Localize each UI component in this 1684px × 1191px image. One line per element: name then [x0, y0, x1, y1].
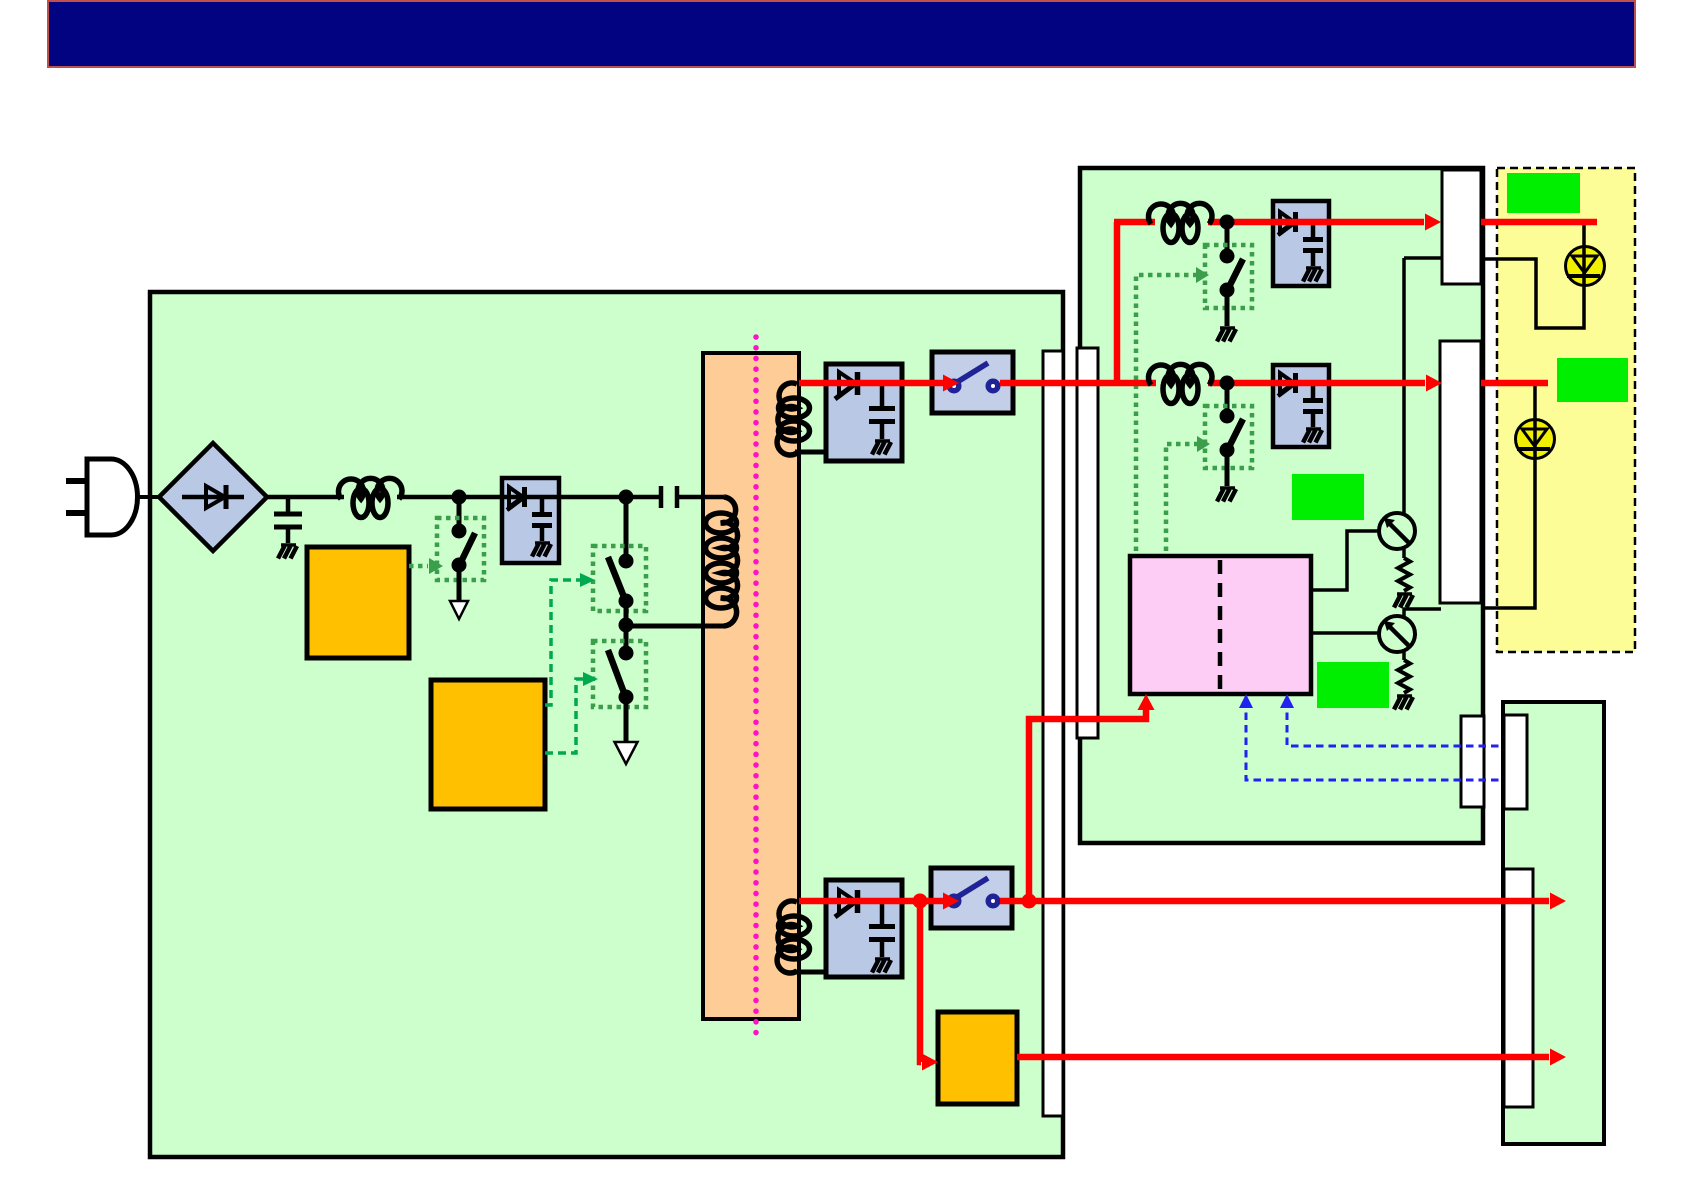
wire SS1 to ground — [1225, 290, 1230, 326]
control line U2 to S1 (dashed) — [545, 580, 584, 705]
control line U2 to S2 (dashed) — [545, 679, 587, 753]
resistor R2 (emitter Q2) — [1398, 660, 1410, 693]
connector bar secondary bottom right — [1461, 716, 1484, 807]
transformer T1 secondary winding top — [777, 383, 809, 455]
open arrow return S2 — [615, 742, 638, 764]
red riser to U4 — [1029, 710, 1146, 901]
open arrow return PFC — [450, 601, 468, 619]
red top branch to panel — [1481, 219, 1597, 226]
feedback line U4 pin2 (blue dashed) — [1287, 700, 1503, 746]
red drop to U3 — [920, 901, 921, 1062]
wire node A to PFC switch — [457, 497, 462, 531]
S1 contacts and lever — [608, 554, 634, 609]
capacitor C1 to ground — [274, 497, 302, 543]
feedback line U4 pin1 (blue dashed) — [1246, 700, 1503, 780]
wire to PFC return — [457, 565, 462, 601]
node E junction — [1220, 376, 1235, 391]
wire plug to bridge — [135, 495, 160, 499]
wire Q1 collector to LED1 return (through connector) — [1404, 256, 1442, 260]
red riser on secondary board — [1114, 222, 1121, 383]
connector bar output board main — [1504, 869, 1533, 1107]
SS1 contacts and lever — [1220, 249, 1244, 298]
main AC wire — [267, 495, 344, 500]
microcontroller U4 (pink, dual section) — [1130, 556, 1311, 694]
ground under C1 — [278, 545, 297, 559]
transistor Q2 — [1311, 609, 1441, 660]
title bar — [48, 1, 1635, 67]
wire SS2 to ground — [1225, 450, 1230, 486]
label box green 3 (near U4) — [1292, 474, 1364, 520]
red U3 output to output board — [1017, 1054, 1549, 1061]
control line U1 to PFC switch (dotted arrow) — [409, 564, 428, 569]
panel box yellow dashed — [1497, 168, 1635, 652]
primary PSU board — [150, 292, 1063, 1157]
control line U4 to SS2 (dotted) — [1166, 444, 1197, 551]
transformer T1 secondary winding bottom — [777, 901, 809, 973]
connector bar primary right — [1043, 351, 1063, 1116]
wire node D to shunt switch SS1 — [1225, 222, 1230, 256]
label box green 4 (below U4) — [1317, 662, 1389, 708]
resistor R1 (emitter Q1) — [1398, 558, 1410, 591]
U4 internal divider — [1218, 560, 1223, 690]
secondary regulator block D3 (diode+cap) top branch — [1273, 201, 1329, 286]
standby converter U3 (orange) — [938, 1012, 1017, 1104]
bridge rectifier BR1 — [159, 443, 267, 551]
red feed winding top to SW1 — [799, 380, 944, 387]
node B junction — [619, 490, 634, 505]
shunt switch SS2 dotted enclosure — [1205, 406, 1252, 468]
transformer isolation dotted line — [753, 337, 759, 1033]
wire node B to half-bridge — [624, 497, 629, 561]
PFC controller U1 (orange) — [307, 547, 409, 658]
S2 contacts and lever — [608, 646, 634, 705]
node A junction — [452, 490, 467, 505]
half-bridge controller U2 (orange) — [431, 680, 545, 809]
ground under R1 — [1394, 594, 1413, 608]
wire node E to shunt switch SS2 — [1225, 383, 1230, 416]
ground under SS1 — [1217, 328, 1236, 342]
red feed SW1 to secondary board — [1000, 380, 1156, 387]
red junction to U4 supply — [1022, 894, 1037, 909]
red feed winding bottom to SW2 — [799, 898, 944, 905]
line filter block FL1 (diode+cap) — [502, 478, 559, 563]
secondary board — [1080, 168, 1483, 843]
LED1 wire — [1582, 222, 1586, 247]
inductor L1 — [339, 478, 403, 517]
ground under R2 — [1394, 696, 1413, 710]
node D junction — [1220, 215, 1235, 230]
label box green 2 (panel mid) — [1557, 358, 1628, 402]
transformer T1 primary winding — [706, 497, 738, 626]
red standby rail junction — [913, 894, 928, 909]
SS2 contacts and lever — [1220, 409, 1244, 458]
connector bar secondary right top — [1442, 170, 1481, 284]
LED2 wire — [1533, 383, 1537, 420]
shunt switch SS1 dotted enclosure — [1205, 245, 1252, 308]
transistor Q1 — [1311, 258, 1415, 590]
LED2 — [1516, 420, 1555, 459]
inductor L3 (secondary mid branch) — [1149, 364, 1213, 403]
wire secondary top winding to rectifier — [795, 450, 828, 455]
red top branch — [1114, 219, 1155, 226]
wire Q2 collector to LED2 return (through connector) — [1481, 457, 1535, 608]
AC plug P1 — [66, 459, 138, 535]
resonant capacitor C2 — [661, 486, 677, 508]
transformer body — [703, 353, 799, 1019]
red feed SW2 to output board — [1000, 898, 1549, 905]
relay switch SW1 block top — [932, 352, 1013, 413]
rectifier block D2 (diode+cap) bottom — [826, 880, 902, 977]
relay switch SW2 block bottom — [931, 868, 1012, 928]
ground under SS2 — [1217, 488, 1236, 502]
red mid branch to panel — [1481, 380, 1548, 387]
PFC switch contacts and lever — [452, 524, 476, 573]
rectifier block D1 (diode+cap) top — [826, 364, 902, 461]
connector bar output board top — [1504, 715, 1527, 809]
wire to S2 return — [624, 697, 629, 742]
control line U4 to SS1 (dotted) — [1136, 275, 1196, 551]
label box green 1 (panel top) — [1507, 173, 1580, 213]
wire secondary bottom winding to rectifier — [795, 970, 828, 975]
connector bar secondary left — [1077, 348, 1098, 738]
node C junction (half-bridge midpoint) — [624, 601, 629, 653]
connector bar secondary right mid — [1440, 341, 1481, 603]
red mid branch — [1208, 380, 1425, 387]
wire node C to transformer primary bottom — [626, 624, 726, 629]
PFC switch Q-PFC dotted enclosure — [437, 518, 484, 580]
output board bottom right — [1503, 702, 1604, 1144]
secondary regulator block D4 (diode+cap) mid branch — [1273, 365, 1329, 447]
half-bridge switch S1 dotted enclosure — [593, 546, 646, 611]
half-bridge switch S2 dotted enclosure — [593, 641, 646, 707]
LED1 — [1566, 247, 1605, 286]
inductor L2 (secondary top branch) — [1149, 203, 1213, 242]
